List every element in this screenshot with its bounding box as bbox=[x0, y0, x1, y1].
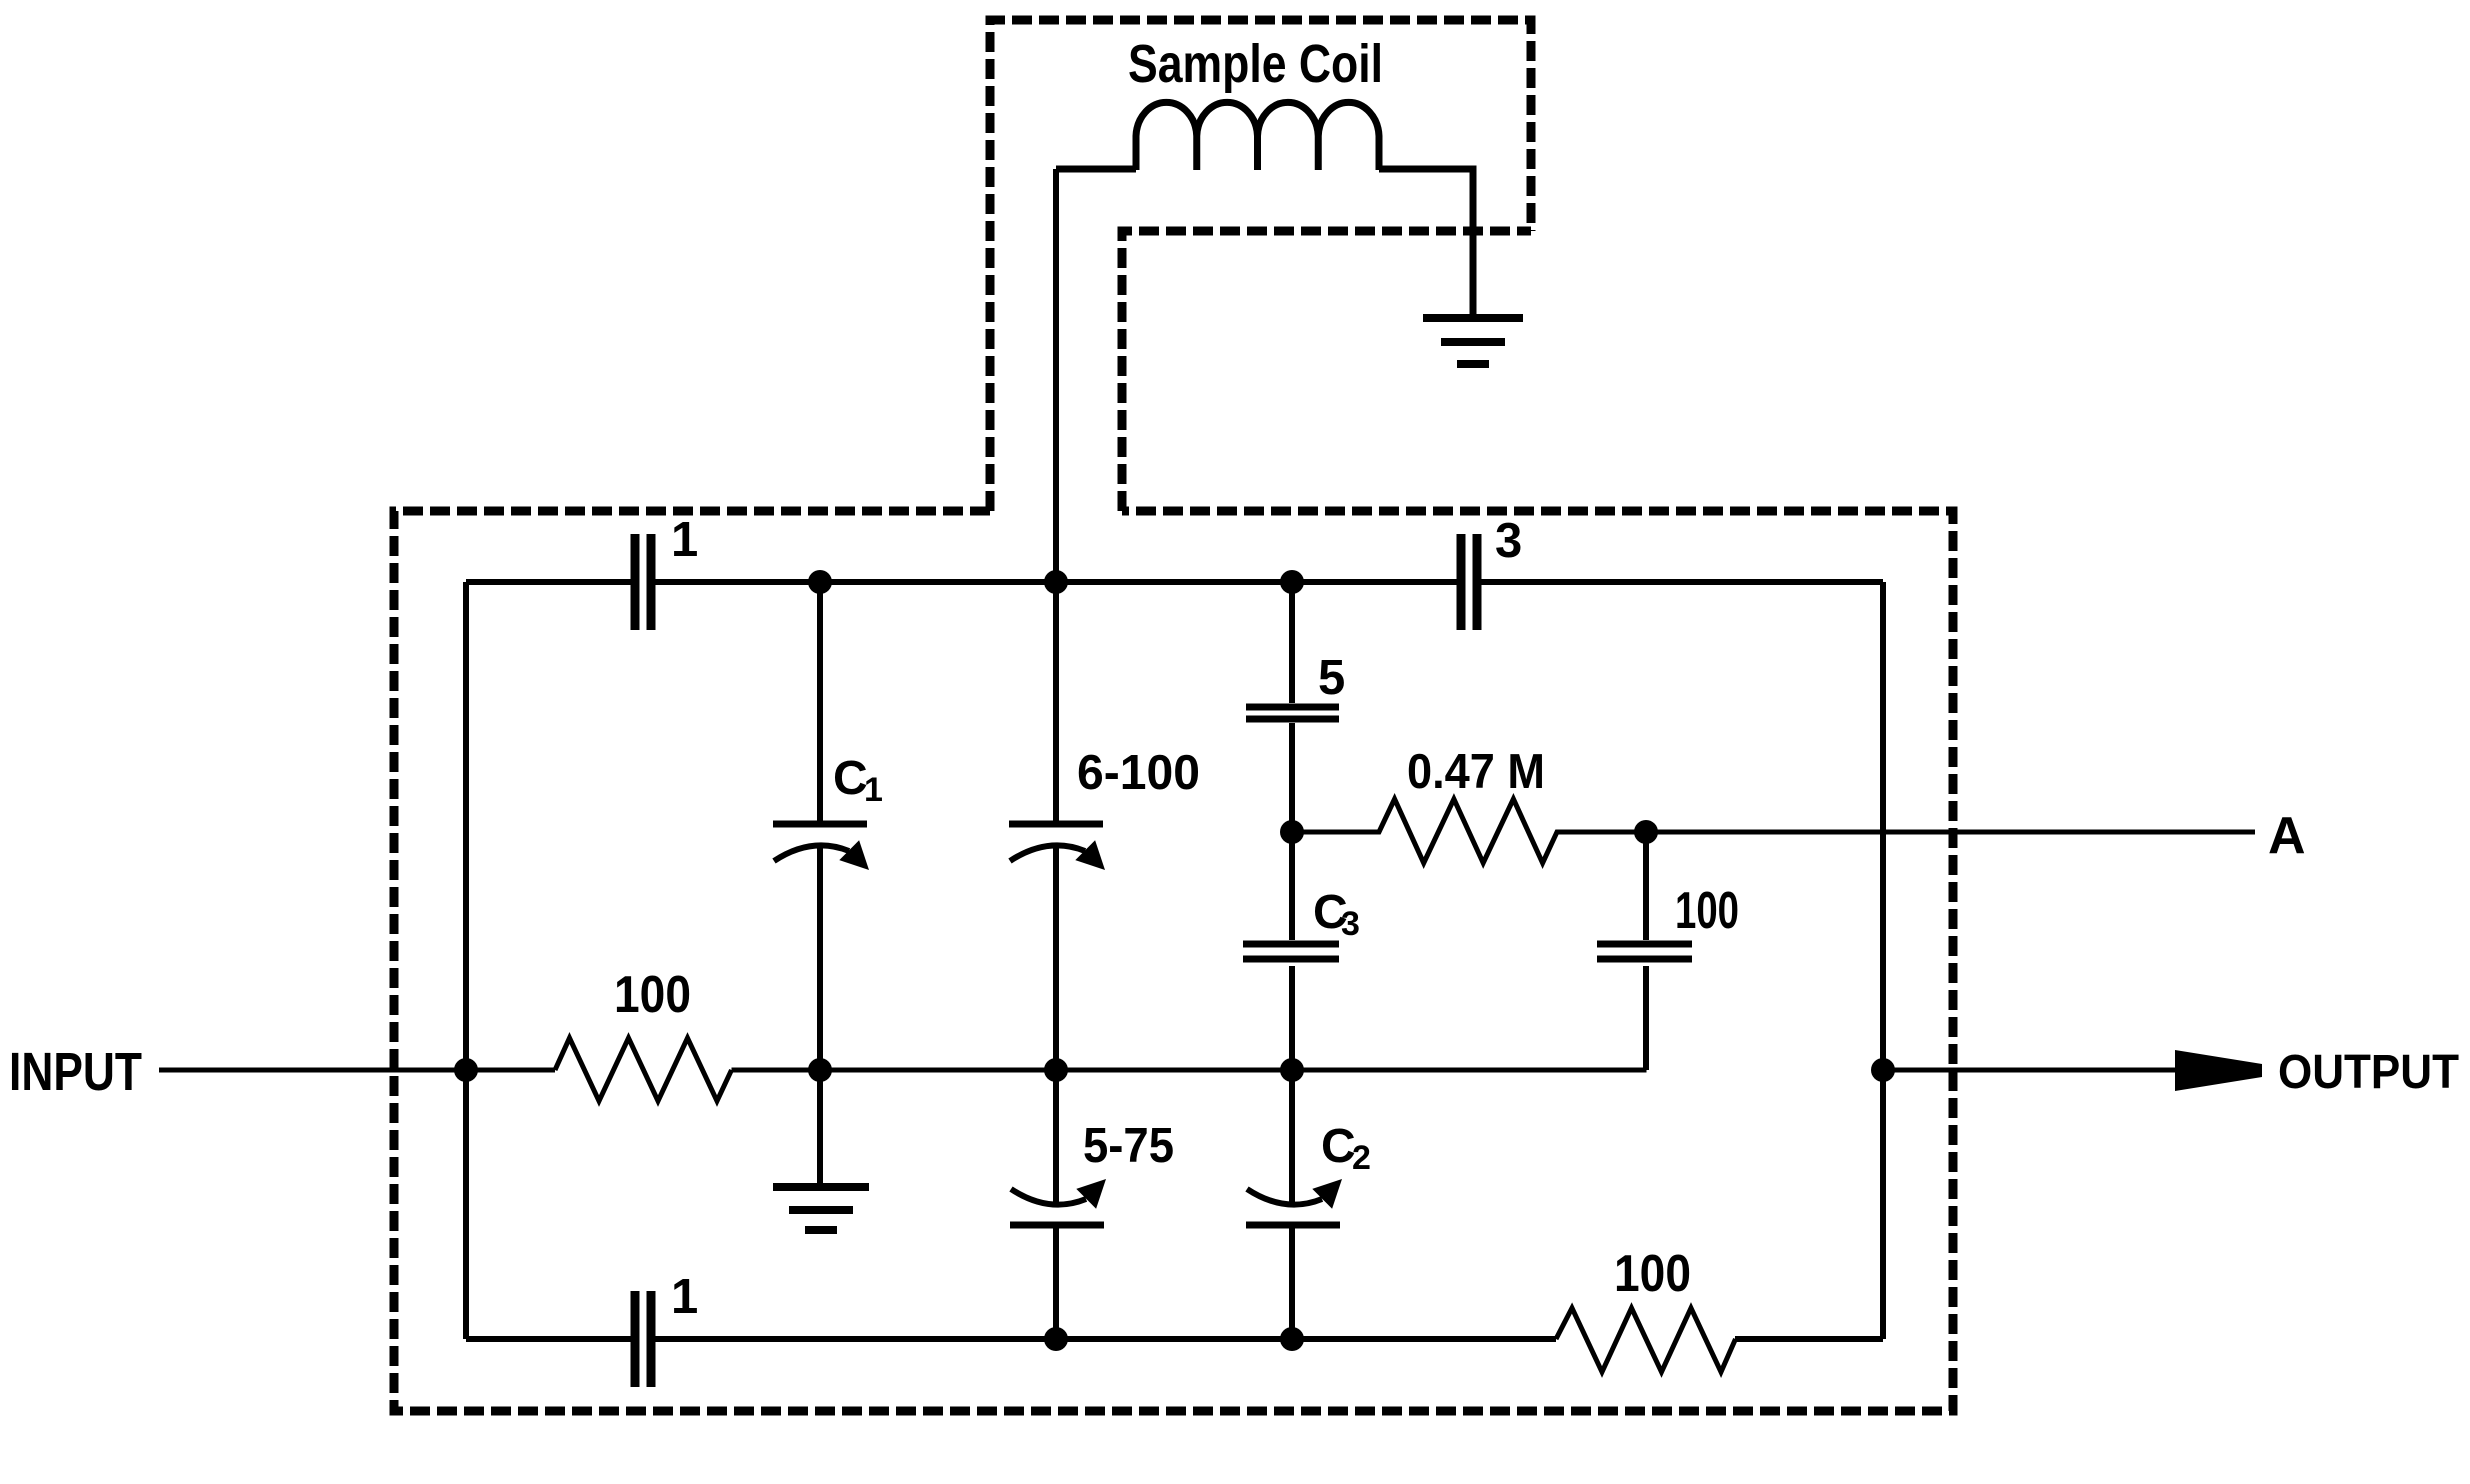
junction input line / C1 branch bbox=[808, 1058, 832, 1082]
variable capacitor C2 bbox=[1246, 1222, 1340, 1229]
svg-text:C: C bbox=[833, 752, 868, 805]
junction top wire / 6-100 branch bbox=[1044, 570, 1068, 594]
capacitor 100 (A branch) bbox=[1643, 832, 1649, 1070]
capacitor 1 (top feedthrough) bbox=[635, 534, 651, 630]
junction A line / 100 cap branch bbox=[1634, 820, 1658, 844]
junction top wire / C1 branch bbox=[808, 570, 832, 594]
svg-text:100: 100 bbox=[1675, 882, 1739, 940]
svg-text:100: 100 bbox=[1614, 1245, 1691, 1303]
resistor R2 0.47 M bbox=[1292, 799, 1646, 863]
sample coil dashed shield box bbox=[990, 20, 1531, 511]
wire coil left lead bbox=[1056, 166, 1136, 173]
svg-text:5-75: 5-75 bbox=[1083, 1119, 1174, 1173]
svg-text:3: 3 bbox=[1495, 514, 1522, 568]
junction input line / 5-75 branch bbox=[1044, 1058, 1068, 1082]
svg-text:6-100: 6-100 bbox=[1077, 746, 1200, 800]
variable capacitor 6-100 bbox=[1009, 821, 1103, 828]
wire node A line bbox=[1646, 830, 2255, 835]
svg-text:OUTPUT: OUTPUT bbox=[2278, 1046, 2459, 1099]
wire input line middle bbox=[732, 1068, 1647, 1073]
inductor L1 (sample coil) bbox=[1136, 102, 1379, 170]
capacitor 3 (top right) bbox=[1461, 534, 1477, 630]
junction A line / C3 branch bbox=[1280, 820, 1304, 844]
svg-text:2: 2 bbox=[1352, 1139, 1371, 1177]
svg-text:5: 5 bbox=[1318, 651, 1345, 705]
variable capacitor C1 bbox=[817, 582, 823, 1186]
svg-text:100: 100 bbox=[614, 966, 691, 1024]
svg-text:Sample Coil: Sample Coil bbox=[1128, 34, 1383, 94]
svg-text:1: 1 bbox=[864, 771, 883, 809]
capacitor 1 (bottom feedthrough) bbox=[635, 1291, 651, 1387]
output arrowhead bbox=[2175, 1050, 2262, 1091]
inner dashed shield box bbox=[1122, 231, 1531, 511]
resistor R1 100 (input) bbox=[555, 1038, 732, 1101]
ground (C1 branch) bbox=[773, 1187, 869, 1230]
wire box right bbox=[1880, 582, 1886, 1339]
svg-text:INPUT: INPUT bbox=[9, 1042, 142, 1102]
svg-text:3: 3 bbox=[1341, 905, 1360, 943]
wire OUTPUT lead bbox=[1883, 1068, 2175, 1073]
wire INPUT lead bbox=[159, 1068, 555, 1073]
svg-text:1: 1 bbox=[671, 513, 698, 567]
wire box top bbox=[466, 579, 1883, 585]
junction bottom wire / 5-75 branch bbox=[1044, 1327, 1068, 1351]
capacitor 5 bbox=[1246, 707, 1339, 719]
junction input line / C2 branch bbox=[1280, 1058, 1304, 1082]
wire coil right lead bbox=[1379, 169, 1473, 317]
wire 6-100 / 5-75 branch vertical bbox=[1053, 169, 1059, 1339]
wire 5 / C3 / C2 branch vertical bbox=[1289, 582, 1295, 1339]
junction top wire / 5-C3 branch bbox=[1280, 570, 1304, 594]
svg-text:C: C bbox=[1321, 1120, 1356, 1173]
wire box bottom bbox=[466, 1336, 1883, 1342]
main dashed enclosure box bbox=[394, 511, 1953, 1411]
resistor R3 100 (bottom) bbox=[1556, 1308, 1736, 1372]
svg-text:1: 1 bbox=[671, 1270, 698, 1324]
junction bottom wire / C2 branch bbox=[1280, 1327, 1304, 1351]
svg-text:A: A bbox=[2268, 807, 2306, 865]
svg-text:0.47 M: 0.47 M bbox=[1407, 745, 1545, 799]
ground (sample coil side) bbox=[1423, 318, 1523, 364]
wire box left bbox=[463, 582, 469, 1339]
junction input line / box left bbox=[454, 1058, 478, 1082]
junction output / box right bbox=[1871, 1058, 1895, 1082]
capacitor C3 bbox=[1243, 944, 1339, 959]
variable capacitor 5-75 bbox=[1010, 1222, 1104, 1229]
